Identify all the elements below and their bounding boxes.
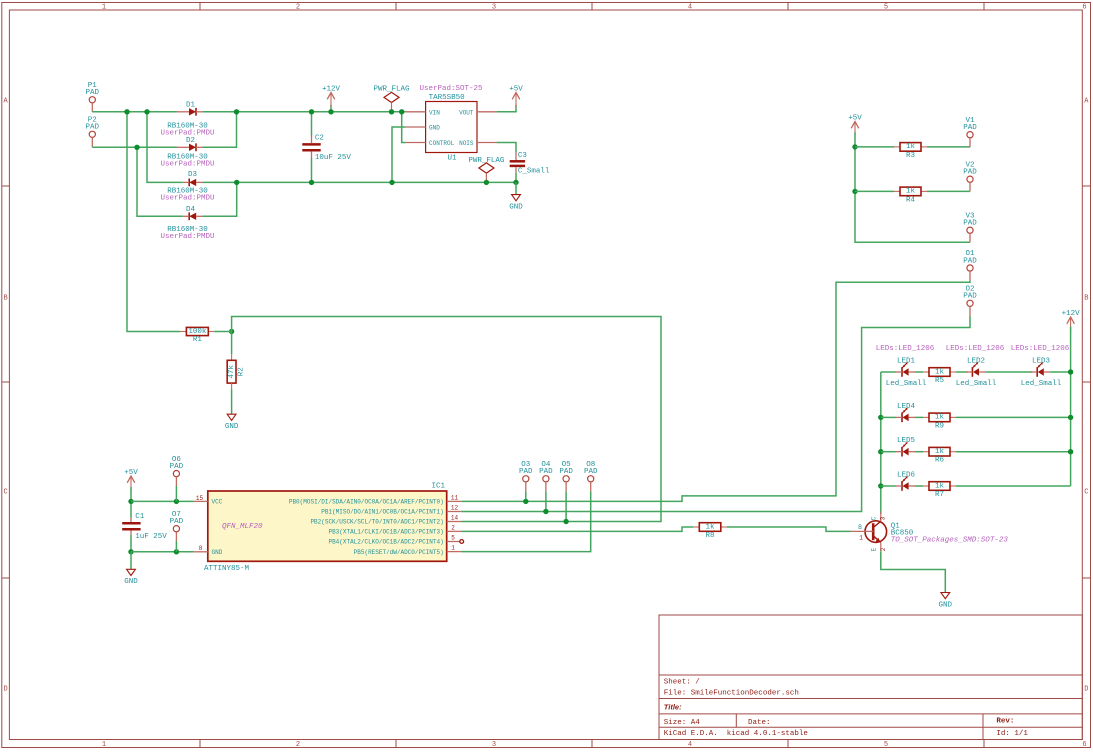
wire NOIS to C3 xyxy=(497,143,516,153)
svg-text:C1: C1 xyxy=(135,513,145,521)
wire D1 cathode to U1 VIN (+12V rail) xyxy=(203,111,406,113)
svg-text:3: 3 xyxy=(492,4,496,12)
svg-text:Rev:: Rev: xyxy=(996,717,1014,725)
svg-text:R5: R5 xyxy=(935,377,945,385)
junction rail/R1 branch xyxy=(124,109,129,114)
wire P2 line down to D4 cathode xyxy=(137,147,183,216)
junction O3 join PB0 xyxy=(523,499,528,504)
pin stub V2 xyxy=(969,182,971,191)
svg-text:C_Small: C_Small xyxy=(518,167,550,175)
wire to GND symbol xyxy=(130,552,132,570)
capacitor C1 xyxy=(122,523,140,529)
svg-text:GND: GND xyxy=(939,601,953,609)
junction D2 join rail xyxy=(234,109,239,114)
svg-text:C: C xyxy=(3,489,7,497)
svg-text:PB0(MOSI/DI/SDA/AIN0/OC0A/OC1A: PB0(MOSI/DI/SDA/AIN0/OC0A/OC1A/AREF/PCIN… xyxy=(289,499,444,506)
IC1 pin numbers xyxy=(196,494,459,552)
wire LED4 row left xyxy=(881,416,896,418)
svg-text:VOUT: VOUT xyxy=(459,109,474,116)
wire VCC rail to pin 15 xyxy=(131,500,194,502)
IC1 pin stubs xyxy=(194,501,464,551)
pin 5 PB4 xyxy=(447,541,460,543)
svg-text:UserPad:PMDU: UserPad:PMDU xyxy=(160,129,214,137)
wire LED1 row left xyxy=(881,371,896,373)
wire R9 to +12V xyxy=(956,416,1071,418)
svg-text:NOIS: NOIS xyxy=(459,140,474,147)
svg-text:4: 4 xyxy=(688,4,692,12)
power flag PWR_FLAG2 xyxy=(468,157,505,182)
svg-text:LED6: LED6 xyxy=(897,472,916,480)
svg-text:D3: D3 xyxy=(188,171,198,179)
svg-text:PB1(MISO/DO/AIN1/OC0B/OC1A/PCI: PB1(MISO/DO/AIN1/OC0B/OC1A/PCINT1) xyxy=(321,509,443,516)
junction O7 join xyxy=(174,549,179,554)
wire GND rail to pin 8 xyxy=(131,551,194,553)
wire GND rail (D3 anode to C3) xyxy=(203,181,516,183)
pin U1 VIN xyxy=(406,111,426,113)
wire +5V to R3 xyxy=(855,146,894,148)
svg-text:R3: R3 xyxy=(906,152,916,160)
wire node down to R2 xyxy=(231,332,233,355)
junction C3 bottom on GND rail xyxy=(513,180,518,185)
wire U1 GND down to GND rail xyxy=(392,127,406,182)
svg-text:C3: C3 xyxy=(518,152,528,160)
power symbol GND (C1) xyxy=(124,569,138,586)
pin stub C2 bottom xyxy=(311,152,313,158)
svg-text:PB4(XTAL2/CLKO/OC1B/ADC2/PCINT: PB4(XTAL2/CLKO/OC1B/ADC2/PCINT4) xyxy=(328,539,443,546)
wire +5V down to V3 xyxy=(855,132,970,242)
wire +12V vertical to LED rows xyxy=(1070,327,1072,486)
power symbol +5V (U1 out) xyxy=(509,86,523,108)
svg-text:B: B xyxy=(858,524,862,531)
pad O2 xyxy=(963,286,977,307)
svg-text:3: 3 xyxy=(880,516,887,520)
wire +5V down xyxy=(130,487,132,518)
IC1 right pin names xyxy=(289,499,444,556)
svg-text:1k: 1k xyxy=(935,414,945,422)
svg-text:U1: U1 xyxy=(447,154,457,162)
pin stub O4 xyxy=(545,482,547,492)
svg-text:UserPad:PMDU: UserPad:PMDU xyxy=(160,195,214,203)
pad P1 xyxy=(86,82,100,103)
wire C2 to GND rail xyxy=(311,158,313,182)
power symbol GND (power section) xyxy=(509,195,523,212)
wire R5 to LED2 xyxy=(956,371,967,373)
transistor Q1 BC850 xyxy=(851,512,887,552)
wire LED6 to R7 xyxy=(915,485,923,487)
junction PWR_FLAG2 on GND rail xyxy=(484,180,489,185)
svg-text:D: D xyxy=(1084,686,1088,694)
svg-text:Id: 1/1: Id: 1/1 xyxy=(996,730,1028,738)
svg-text:100k: 100k xyxy=(188,328,207,336)
svg-text:11: 11 xyxy=(451,494,459,501)
wire +12V rail down to D3 cathode xyxy=(147,112,183,183)
capacitor C3 labels xyxy=(518,152,550,175)
pad O8 xyxy=(584,461,598,482)
pin 11 PB0 xyxy=(447,500,462,502)
svg-text:2: 2 xyxy=(296,741,300,749)
junction vert row4 xyxy=(878,483,883,488)
LED LED4 xyxy=(896,408,916,422)
svg-text:5: 5 xyxy=(884,741,888,749)
svg-text:LED2: LED2 xyxy=(967,358,985,366)
wire LED4 to R9 xyxy=(915,416,923,418)
junction C2 top on rail xyxy=(309,109,314,114)
wire R2 to GND xyxy=(231,389,233,414)
svg-text:IC1: IC1 xyxy=(431,482,445,490)
IC1 left pin names xyxy=(212,499,223,556)
wire R6 to +12V xyxy=(956,451,1071,453)
svg-text:12: 12 xyxy=(451,505,459,512)
pin stub P2 xyxy=(91,137,93,147)
pin 14 PB2 xyxy=(447,521,462,523)
svg-text:UserPad:SOT-25: UserPad:SOT-25 xyxy=(419,85,483,93)
junction CONTROL join rail xyxy=(399,109,404,114)
svg-text:PB3(XTAL1/CLKI/OC1B/ADC3/PCINT: PB3(XTAL1/CLKI/OC1B/ADC3/PCINT3) xyxy=(328,529,443,536)
Q1 pin numbers/names xyxy=(858,516,887,551)
wire Q1 emitter to GND xyxy=(881,551,946,592)
svg-text:1k: 1k xyxy=(935,482,945,490)
LED6 labels xyxy=(897,472,916,480)
junction rail/D3 branch xyxy=(144,109,149,114)
svg-text:D1: D1 xyxy=(186,102,196,110)
svg-text:E: E xyxy=(871,547,878,551)
pin stub C3 top xyxy=(515,152,517,160)
wire R1 to node xyxy=(214,331,231,333)
svg-text:C: C xyxy=(871,516,878,520)
wire O4 to PB1 net xyxy=(545,491,547,511)
svg-text:2: 2 xyxy=(296,4,300,12)
svg-text:1k: 1k xyxy=(706,523,716,531)
svg-text:LED3: LED3 xyxy=(1032,358,1051,366)
svg-text:VCC: VCC xyxy=(212,499,223,506)
LED LED3 xyxy=(1031,362,1051,376)
svg-text:R6: R6 xyxy=(935,457,945,465)
LED4 labels xyxy=(897,403,916,411)
diode D1 xyxy=(177,108,203,116)
pad V3 xyxy=(963,212,977,233)
svg-text:R7: R7 xyxy=(935,491,944,499)
pin U1 NOIS xyxy=(477,142,497,144)
svg-text:KiCad E.D.A. kicad 4.0.1-stab: KiCad E.D.A. kicad 4.0.1-stable xyxy=(664,730,808,738)
resistor R8 xyxy=(693,523,727,540)
capacitor C1 labels xyxy=(135,513,167,541)
pin stub P1 xyxy=(91,103,93,112)
IC1 labels xyxy=(204,482,445,573)
svg-text:C2: C2 xyxy=(315,134,324,142)
svg-text:TAR5SB50: TAR5SB50 xyxy=(429,94,466,102)
junction O6 join xyxy=(174,499,179,504)
junction O4 join PB1 xyxy=(543,509,548,514)
wire O8 to IC1 PB5 xyxy=(461,491,590,551)
LED LED5 xyxy=(896,442,916,456)
svg-text:CONTROL: CONTROL xyxy=(429,140,455,147)
svg-text:3: 3 xyxy=(492,741,496,749)
svg-text:5: 5 xyxy=(884,4,888,12)
junction vert row3 xyxy=(878,449,883,454)
junction R1/R2 node xyxy=(229,329,234,334)
wire O6 to VCC rail xyxy=(175,486,177,501)
pad V1 xyxy=(963,117,977,138)
svg-text:R8: R8 xyxy=(706,532,715,540)
svg-text:1k: 1k xyxy=(935,448,945,456)
diode D3 labels xyxy=(160,171,214,202)
svg-text:Title:: Title: xyxy=(664,703,682,712)
svg-text:R2: R2 xyxy=(238,367,246,376)
pin stub O3 xyxy=(525,482,527,492)
svg-text:1uF 25V: 1uF 25V xyxy=(135,533,167,541)
svg-text:LEDs:LED_1206: LEDs:LED_1206 xyxy=(1011,345,1070,353)
svg-text:R9: R9 xyxy=(935,422,944,430)
svg-text:Led_Small: Led_Small xyxy=(886,380,927,388)
junction D4 join GND rail xyxy=(234,180,239,185)
pad P2 xyxy=(86,117,100,138)
wire O2 to IC1 PB1 xyxy=(461,316,970,512)
junction vert row2 xyxy=(878,415,883,420)
resistor R2 (vertical) xyxy=(227,332,245,390)
svg-text:D: D xyxy=(3,686,7,694)
junction PWR_FLAG on rail xyxy=(389,109,394,114)
pin U1 CONTROL xyxy=(406,142,426,144)
regulator U1 TAR5SB50 body xyxy=(426,102,477,153)
pad O3 xyxy=(519,461,533,482)
wire D2 cathode up to +12V rail xyxy=(203,112,237,148)
capacitor C3 xyxy=(510,161,525,166)
power flag PWR_FLAG1 xyxy=(373,85,410,112)
svg-text:PAD: PAD xyxy=(170,463,184,471)
pin stub O8 xyxy=(590,482,592,492)
svg-text:PAD: PAD xyxy=(86,124,100,132)
svg-text:1: 1 xyxy=(451,545,455,552)
power symbol GND (R2) xyxy=(225,414,239,431)
pin 12 PB1 xyxy=(447,511,462,513)
svg-text:1: 1 xyxy=(859,535,863,542)
svg-text:2: 2 xyxy=(880,547,887,551)
wire O3 to PB0 net xyxy=(525,491,527,501)
capacitor C2 labels xyxy=(315,134,352,162)
diode D3 xyxy=(183,179,203,187)
svg-text:PB5(RESET/dW/ADC0/PCINT5): PB5(RESET/dW/ADC0/PCINT5) xyxy=(354,549,444,556)
wire LED1 to R5 xyxy=(915,371,923,373)
pin stub V1 xyxy=(969,138,971,148)
resistor R1 xyxy=(180,327,214,344)
wire LED5 to R6 xyxy=(915,451,923,453)
resistor R5 xyxy=(923,368,956,385)
capacitor C2 xyxy=(302,144,320,150)
pin 15 VCC xyxy=(194,500,208,502)
pin stub O5 xyxy=(565,482,567,492)
svg-text:47k: 47k xyxy=(228,364,236,378)
svg-text:PAD: PAD xyxy=(519,468,533,476)
junction R3 branch xyxy=(852,144,857,149)
svg-text:LEDs:LED_1206: LEDs:LED_1206 xyxy=(876,345,935,353)
wire R3 to V1 xyxy=(927,146,970,148)
wire C1 to GND rail xyxy=(130,535,132,552)
svg-text:PWR_FLAG: PWR_FLAG xyxy=(468,157,505,165)
resistor R7 xyxy=(923,482,956,499)
LED LED6 xyxy=(896,476,916,490)
wire R7 to +12V xyxy=(956,485,1071,487)
resistor R4 xyxy=(894,187,927,204)
svg-text:1: 1 xyxy=(102,4,106,12)
svg-text:B: B xyxy=(1084,295,1088,303)
junction R4 branch xyxy=(852,189,857,194)
wire rail down to C2 xyxy=(311,112,313,136)
IC U1=IC1 ATTINY85-M body xyxy=(208,491,447,561)
diode D1 labels xyxy=(160,102,214,138)
wire P2 to D2 anode xyxy=(92,146,177,148)
wire GND rail to GND symbol xyxy=(515,182,517,194)
svg-text:Size: A4: Size: A4 xyxy=(664,719,701,727)
svg-text:8: 8 xyxy=(199,545,203,552)
power symbol +5V (IC1) xyxy=(124,469,138,491)
power symbol +5V (right) xyxy=(848,115,862,137)
junction GND rail xyxy=(128,549,133,554)
svg-text:1k: 1k xyxy=(935,368,945,376)
svg-text:B: B xyxy=(3,295,7,303)
pad O7 xyxy=(170,511,184,532)
svg-text:Led_Small: Led_Small xyxy=(1021,380,1062,388)
pin stub C2 top xyxy=(311,136,313,144)
LED3 labels xyxy=(1011,345,1070,388)
svg-text:UserPad:PMDU: UserPad:PMDU xyxy=(160,233,214,241)
pin stub O6 xyxy=(175,477,177,486)
pin stub O2 xyxy=(969,306,971,316)
svg-text:Sheet: /: Sheet: / xyxy=(664,679,701,687)
pin stub O7 xyxy=(175,532,177,541)
svg-text:VIN: VIN xyxy=(429,109,440,116)
svg-text:1k: 1k xyxy=(906,143,916,151)
wire LED2 to LED3 xyxy=(985,371,1032,373)
svg-text:LEDs:LED_1206: LEDs:LED_1206 xyxy=(946,345,1005,353)
svg-text:1k: 1k xyxy=(906,188,916,196)
wire +12V rail down-left to R1 xyxy=(127,112,180,332)
power symbol GND (Q1) xyxy=(939,593,953,610)
wire R4 to V2 xyxy=(927,190,970,192)
wire O5 to PB2 net xyxy=(565,491,567,521)
pad V2 xyxy=(963,161,977,182)
diode D2 labels xyxy=(160,137,214,168)
wire IC1 PB3 to R8 xyxy=(461,527,693,531)
junction U1 GND join rail xyxy=(389,180,394,185)
junction P2/D4 branch xyxy=(134,145,139,150)
wire O7 to GND rail xyxy=(175,541,177,552)
svg-text:PB2(SCK/USCK/SCL/T0/INT0/ADC1/: PB2(SCK/USCK/SCL/T0/INT0/ADC1/PCINT2) xyxy=(310,519,443,526)
U1 pin names xyxy=(429,109,474,147)
LED1 labels xyxy=(876,345,935,388)
svg-text:GND: GND xyxy=(124,578,138,586)
wire CONTROL up to rail xyxy=(402,112,406,143)
U1 labels xyxy=(419,85,483,162)
pin 1 PB5 xyxy=(447,551,462,553)
diode D4 xyxy=(183,212,203,220)
svg-text:4: 4 xyxy=(688,741,692,749)
wire D4 anode up to GND rail xyxy=(203,182,237,216)
junction +12V row1 xyxy=(1068,369,1073,374)
power symbol +12V (top) xyxy=(322,86,341,108)
svg-text:GND: GND xyxy=(429,125,440,132)
LED5 labels xyxy=(897,437,916,445)
svg-text:10uF 25V: 10uF 25V xyxy=(315,154,352,162)
pin 2 PB3 xyxy=(447,530,462,532)
junction VCC rail xyxy=(128,499,133,504)
pad O6 xyxy=(170,456,184,477)
svg-text:GND: GND xyxy=(509,203,523,211)
wire LED6 row left xyxy=(881,485,896,487)
power symbol +12V (right) xyxy=(1062,310,1081,332)
pad O5 xyxy=(559,461,573,482)
svg-text:PAD: PAD xyxy=(539,468,553,476)
resistor R6 xyxy=(923,447,956,464)
wire O1 to IC1 PB0 xyxy=(461,281,970,502)
pin stub V3 xyxy=(969,233,971,242)
svg-text:C: C xyxy=(1084,489,1088,497)
LED2 labels xyxy=(946,345,1005,388)
diode D4 labels xyxy=(160,206,214,241)
wire LED left vertical to Q1 collector xyxy=(880,372,882,514)
svg-text:Date:: Date: xyxy=(748,719,771,727)
resistor R3 xyxy=(894,143,927,160)
svg-text:PAD: PAD xyxy=(86,89,100,97)
svg-text:PAD: PAD xyxy=(584,468,598,476)
svg-text:Led_Small: Led_Small xyxy=(956,380,997,388)
svg-text:PAD: PAD xyxy=(963,124,977,132)
pin stub C1 top xyxy=(130,518,132,523)
svg-text:D4: D4 xyxy=(186,206,196,214)
pin stub C1 bottom xyxy=(130,531,132,536)
wire node to IC1 PB2 (long) xyxy=(232,317,661,522)
junction O5 join PB2 xyxy=(563,519,568,524)
title block text xyxy=(664,679,1029,739)
diode D2 xyxy=(177,143,203,151)
wire C3 to GND rail xyxy=(515,173,517,182)
svg-text:14: 14 xyxy=(451,515,459,522)
svg-text:R4: R4 xyxy=(906,196,916,204)
LED LED2 xyxy=(966,362,986,376)
wire R8 to Q1 base xyxy=(727,527,851,531)
svg-text:ATTINY85-M: ATTINY85-M xyxy=(204,565,250,573)
pin U1 GND xyxy=(406,126,426,128)
svg-text:UserPad:PMDU: UserPad:PMDU xyxy=(160,160,214,168)
svg-text:2: 2 xyxy=(451,525,455,532)
wire LED5 row left xyxy=(881,451,896,453)
LED LED1 xyxy=(896,362,916,376)
svg-text:GND: GND xyxy=(212,549,223,556)
svg-text:LED4: LED4 xyxy=(897,403,916,411)
junction C2 bottom on GND rail xyxy=(309,180,314,185)
resistor R9 xyxy=(923,413,956,430)
pin stub O1 xyxy=(969,271,971,281)
wire VOUT to +5V xyxy=(497,105,516,112)
pin U1 VOUT xyxy=(477,111,497,113)
svg-text:File: SmileFunctionDecoder.sch: File: SmileFunctionDecoder.sch xyxy=(664,690,799,698)
wire +5V to R4 xyxy=(855,190,894,192)
svg-text:5: 5 xyxy=(451,535,455,542)
svg-text:PAD: PAD xyxy=(963,169,977,177)
svg-text:6: 6 xyxy=(1082,4,1086,12)
junction +12V on rail xyxy=(328,109,333,114)
Q1 labels xyxy=(891,523,1009,545)
wire LED3 to +12V xyxy=(1050,371,1070,373)
svg-text:1: 1 xyxy=(102,741,106,749)
svg-text:QFN_MLF20: QFN_MLF20 xyxy=(222,523,263,531)
svg-text:D2: D2 xyxy=(186,137,195,145)
svg-text:R1: R1 xyxy=(193,336,203,344)
wire P1 to D1 anode / net VIN-line xyxy=(92,111,177,113)
svg-text:PAD: PAD xyxy=(963,293,977,301)
svg-text:6: 6 xyxy=(1082,741,1086,749)
svg-text:PAD: PAD xyxy=(963,220,977,228)
svg-text:LED1: LED1 xyxy=(897,358,916,366)
